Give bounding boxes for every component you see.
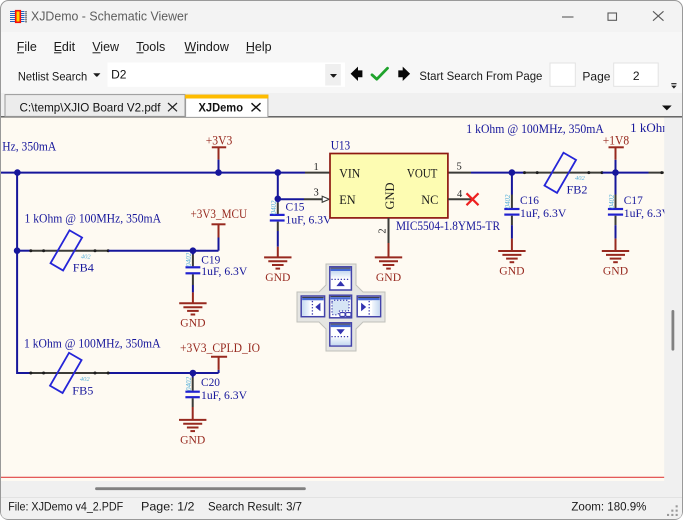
- svg-text:1uF, 6.3V: 1uF, 6.3V: [286, 212, 332, 226]
- svg-text:+3V3_CPLD_IO: +3V3_CPLD_IO: [180, 341, 260, 355]
- svg-text:C16: C16: [520, 193, 539, 207]
- svg-text:GND: GND: [180, 432, 206, 446]
- pins of FB4 (through bead): [30, 250, 108, 252]
- svg-text:0402: 0402: [504, 194, 512, 209]
- ground GND (U13): [375, 243, 402, 284]
- svg-text:XJDemo - Schematic Viewer: XJDemo - Schematic Viewer: [31, 9, 189, 24]
- svg-text:D2: D2: [111, 68, 127, 82]
- junction node C15 top: [275, 169, 282, 176]
- svg-text:NC: NC: [421, 193, 438, 207]
- svg-text:GND: GND: [180, 316, 206, 330]
- svg-text:GND: GND: [265, 270, 291, 284]
- tab bar: [1, 116, 682, 118]
- svg-text:VIN: VIN: [339, 166, 360, 180]
- menu+toolbar strip: [1, 32, 682, 93]
- page border red line: [1, 476, 664, 478]
- window buttons: [562, 11, 664, 20]
- svg-text:VOUT: VOUT: [407, 166, 438, 180]
- capacitor C20: [185, 373, 199, 407]
- svg-text:Window: Window: [184, 40, 229, 54]
- svg-text:GND: GND: [383, 182, 397, 209]
- power +3V3_CPLD_IO: [180, 341, 260, 373]
- pin 2 of U13 (GND): [388, 218, 390, 243]
- svg-text:1: 1: [314, 162, 319, 173]
- svg-text:GND: GND: [603, 263, 629, 277]
- svg-text:View: View: [92, 40, 120, 54]
- svg-text:402: 402: [81, 254, 92, 261]
- svg-text:Hz, 350mA: Hz, 350mA: [2, 139, 56, 154]
- svg-text:+3V3_MCU: +3V3_MCU: [191, 207, 248, 221]
- left button: [301, 296, 324, 317]
- svg-text:C17: C17: [624, 193, 643, 207]
- svg-text:1 kOhm @ 100MHz, 350mA: 1 kOhm @ 100MHz, 350mA: [25, 210, 162, 225]
- svg-text:1uF, 6.3V: 1uF, 6.3V: [201, 388, 247, 402]
- power +3V3: [206, 133, 233, 172]
- svg-text:MIC5504-1.8YM5-TR: MIC5504-1.8YM5-TR: [396, 219, 501, 233]
- ground GND (C16): [498, 239, 525, 278]
- svg-text:FB4: FB4: [73, 261, 94, 275]
- svg-text:Start Search From Page: Start Search From Page: [419, 69, 542, 83]
- svg-text:FB5: FB5: [72, 383, 93, 397]
- FB4 row: junction node rail: [14, 247, 21, 254]
- svg-text:0402: 0402: [185, 376, 193, 391]
- pins of FB2 (through bead): [524, 172, 603, 174]
- svg-text:File: XJDemo v4_2.PDF: File: XJDemo v4_2.PDF: [8, 500, 123, 514]
- pin toward right edge: [649, 172, 664, 174]
- junction node left rail: [14, 169, 21, 176]
- wire EN net: [280, 198, 305, 200]
- svg-text:0402: 0402: [270, 200, 278, 215]
- junction node C16: [509, 169, 516, 176]
- junction node main/+3V3: [215, 169, 222, 176]
- ground GND (C19): [179, 292, 206, 329]
- capacitor C19: [186, 251, 201, 293]
- svg-text:Edit: Edit: [54, 40, 76, 54]
- right button: [357, 296, 380, 317]
- svg-text:Search Result: 3/7: Search Result: 3/7: [208, 500, 302, 514]
- top button: [330, 267, 352, 290]
- svg-text:0402: 0402: [185, 252, 193, 267]
- wire VOUT net: [471, 172, 525, 174]
- power +3V3_MCU: [191, 207, 248, 251]
- svg-text:402: 402: [80, 376, 91, 383]
- junction node EN: [275, 196, 282, 203]
- pin 3 of U13 (EN): [304, 198, 323, 200]
- wire main +3V3 horizontal: [1, 172, 305, 174]
- capacitor C16: [504, 173, 519, 239]
- op-amp/regulator U13 body: [330, 154, 448, 218]
- svg-text:File: File: [17, 40, 37, 54]
- svg-text:Tools: Tools: [136, 40, 165, 54]
- svg-text:EN: EN: [339, 193, 355, 207]
- svg-text:5: 5: [457, 162, 462, 173]
- svg-text:+3V3: +3V3: [206, 133, 233, 147]
- junction node C19: [190, 247, 197, 254]
- pin 1 of U13: [305, 172, 330, 174]
- status bar texts: [8, 500, 647, 514]
- ground GND (C20): [179, 407, 206, 446]
- no-connect X on pin 4: [467, 193, 479, 205]
- bottom button: [330, 323, 352, 346]
- svg-text:GND: GND: [376, 270, 402, 284]
- svg-text:2: 2: [378, 228, 389, 233]
- green check: [372, 68, 388, 79]
- tab strip: [1, 93, 682, 117]
- menu bar: [17, 40, 272, 54]
- ferrite bead FB4: [51, 230, 83, 270]
- svg-text:Help: Help: [246, 40, 272, 54]
- ferrite bead FB2: [544, 153, 576, 193]
- svg-text:3: 3: [314, 188, 319, 199]
- svg-text:U13: U13: [331, 139, 351, 153]
- svg-text:4: 4: [457, 189, 463, 200]
- schematic viewport background: [1, 117, 664, 481]
- svg-text:0402: 0402: [608, 194, 616, 209]
- center button: [330, 295, 352, 318]
- svg-text:1 kOhm @ 100MHz, 350mA: 1 kOhm @ 100MHz, 350mA: [466, 121, 604, 136]
- titlebar: app icon: [10, 11, 27, 23]
- ground GND (C17): [602, 239, 629, 278]
- FB5 row: pins of FB5 (through bead): [30, 372, 108, 374]
- ferrite bead FB5: [50, 353, 82, 393]
- svg-text:1uF, 6.3V: 1uF, 6.3V: [624, 206, 671, 220]
- resize grip: [667, 505, 678, 516]
- junction node C20: [190, 370, 197, 377]
- svg-text:XJDemo: XJDemo: [199, 100, 244, 114]
- ground GND (C15): [264, 247, 291, 284]
- svg-text:Netlist Search: Netlist Search: [18, 69, 87, 83]
- capacitor C17: [608, 173, 623, 239]
- junction node +1V8: [612, 169, 619, 176]
- svg-text:C:\temp\XJIO Board V2.pdf: C:\temp\XJIO Board V2.pdf: [20, 101, 162, 115]
- svg-text:Page: Page: [582, 69, 610, 83]
- svg-text:GND: GND: [499, 263, 525, 277]
- wire left vertical rail: [17, 173, 219, 373]
- wire branch to C15/EN: [277, 173, 279, 203]
- svg-text:+1V8: +1V8: [603, 133, 629, 147]
- wire FB4 to +3V3_MCU: [109, 250, 219, 252]
- svg-text:1 kOhm @ 100MHz, 350mA: 1 kOhm @ 100MHz, 350mA: [24, 336, 161, 351]
- status bar: [1, 497, 682, 519]
- pin 5 of U13: [448, 172, 471, 174]
- svg-text:Zoom: 180.9%: Zoom: 180.9%: [571, 500, 646, 514]
- back arrow: [351, 67, 363, 81]
- svg-text:2: 2: [633, 69, 640, 83]
- svg-text:Page: 1/2: Page: 1/2: [141, 500, 195, 514]
- power +1V8: [603, 133, 629, 172]
- wire FB4 left: [17, 250, 30, 252]
- svg-text:1uF, 6.3V: 1uF, 6.3V: [201, 264, 247, 278]
- scrollbar thumbs: [672, 310, 675, 351]
- svg-text:C15: C15: [286, 199, 305, 213]
- pin 3 input arrow: [322, 196, 329, 202]
- capacitor C15: [270, 203, 285, 247]
- scrollbar areas: [664, 117, 681, 497]
- svg-text:FB2: FB2: [567, 183, 588, 197]
- wire +1V8 net: [603, 172, 649, 174]
- pin 4 of U13 (NC): [448, 198, 471, 200]
- svg-text:1uF, 6.3V: 1uF, 6.3V: [520, 206, 567, 220]
- svg-text:402: 402: [575, 175, 586, 182]
- forward arrow: [398, 67, 410, 81]
- navigation pad widget: [297, 264, 385, 351]
